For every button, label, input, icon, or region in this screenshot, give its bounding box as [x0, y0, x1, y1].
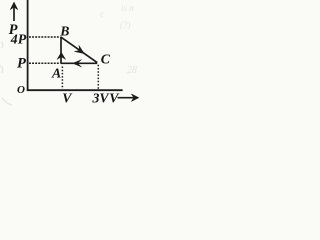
P axis arrow (top-left) [10, 2, 17, 21]
arrowhead up on A-B [57, 52, 65, 59]
dashed line at P level to A [29, 62, 61, 64]
svg-text:O: O [17, 84, 25, 96]
svg-text:c: c [100, 9, 104, 19]
dotted line A down to V [61, 67, 63, 90]
paper background [0, 0, 152, 106]
process line C to A (horizontal) [61, 62, 97, 64]
process line B to C (diagonal) [61, 37, 98, 63]
svg-text:is n: is n [121, 3, 134, 13]
svg-text:P: P [17, 55, 26, 71]
horizontal axis (volume axis line) [27, 89, 123, 91]
dashed line at 4P level to B [29, 36, 60, 38]
svg-text:3V: 3V [92, 90, 111, 105]
arrowhead left on C-A [73, 60, 82, 67]
arrowhead down-right on B-C [75, 45, 85, 53]
svg-text:C: C [101, 52, 111, 67]
vertical axis (pressure axis line) [27, 0, 29, 91]
P-V thermodynamic cycle diagram [0, 0, 152, 106]
svg-text:4P: 4P [10, 31, 27, 46]
faint bleed-through text top-right [100, 3, 137, 76]
svg-text:28: 28 [127, 65, 137, 76]
faint bleed-through marks left/bottom [0, 42, 12, 105]
svg-text:(?): (?) [120, 20, 131, 30]
svg-text:B: B [59, 24, 69, 39]
svg-text:A: A [51, 65, 61, 80]
dotted line C down to 3V [97, 65, 99, 89]
process line A to B (vertical) [60, 37, 62, 64]
